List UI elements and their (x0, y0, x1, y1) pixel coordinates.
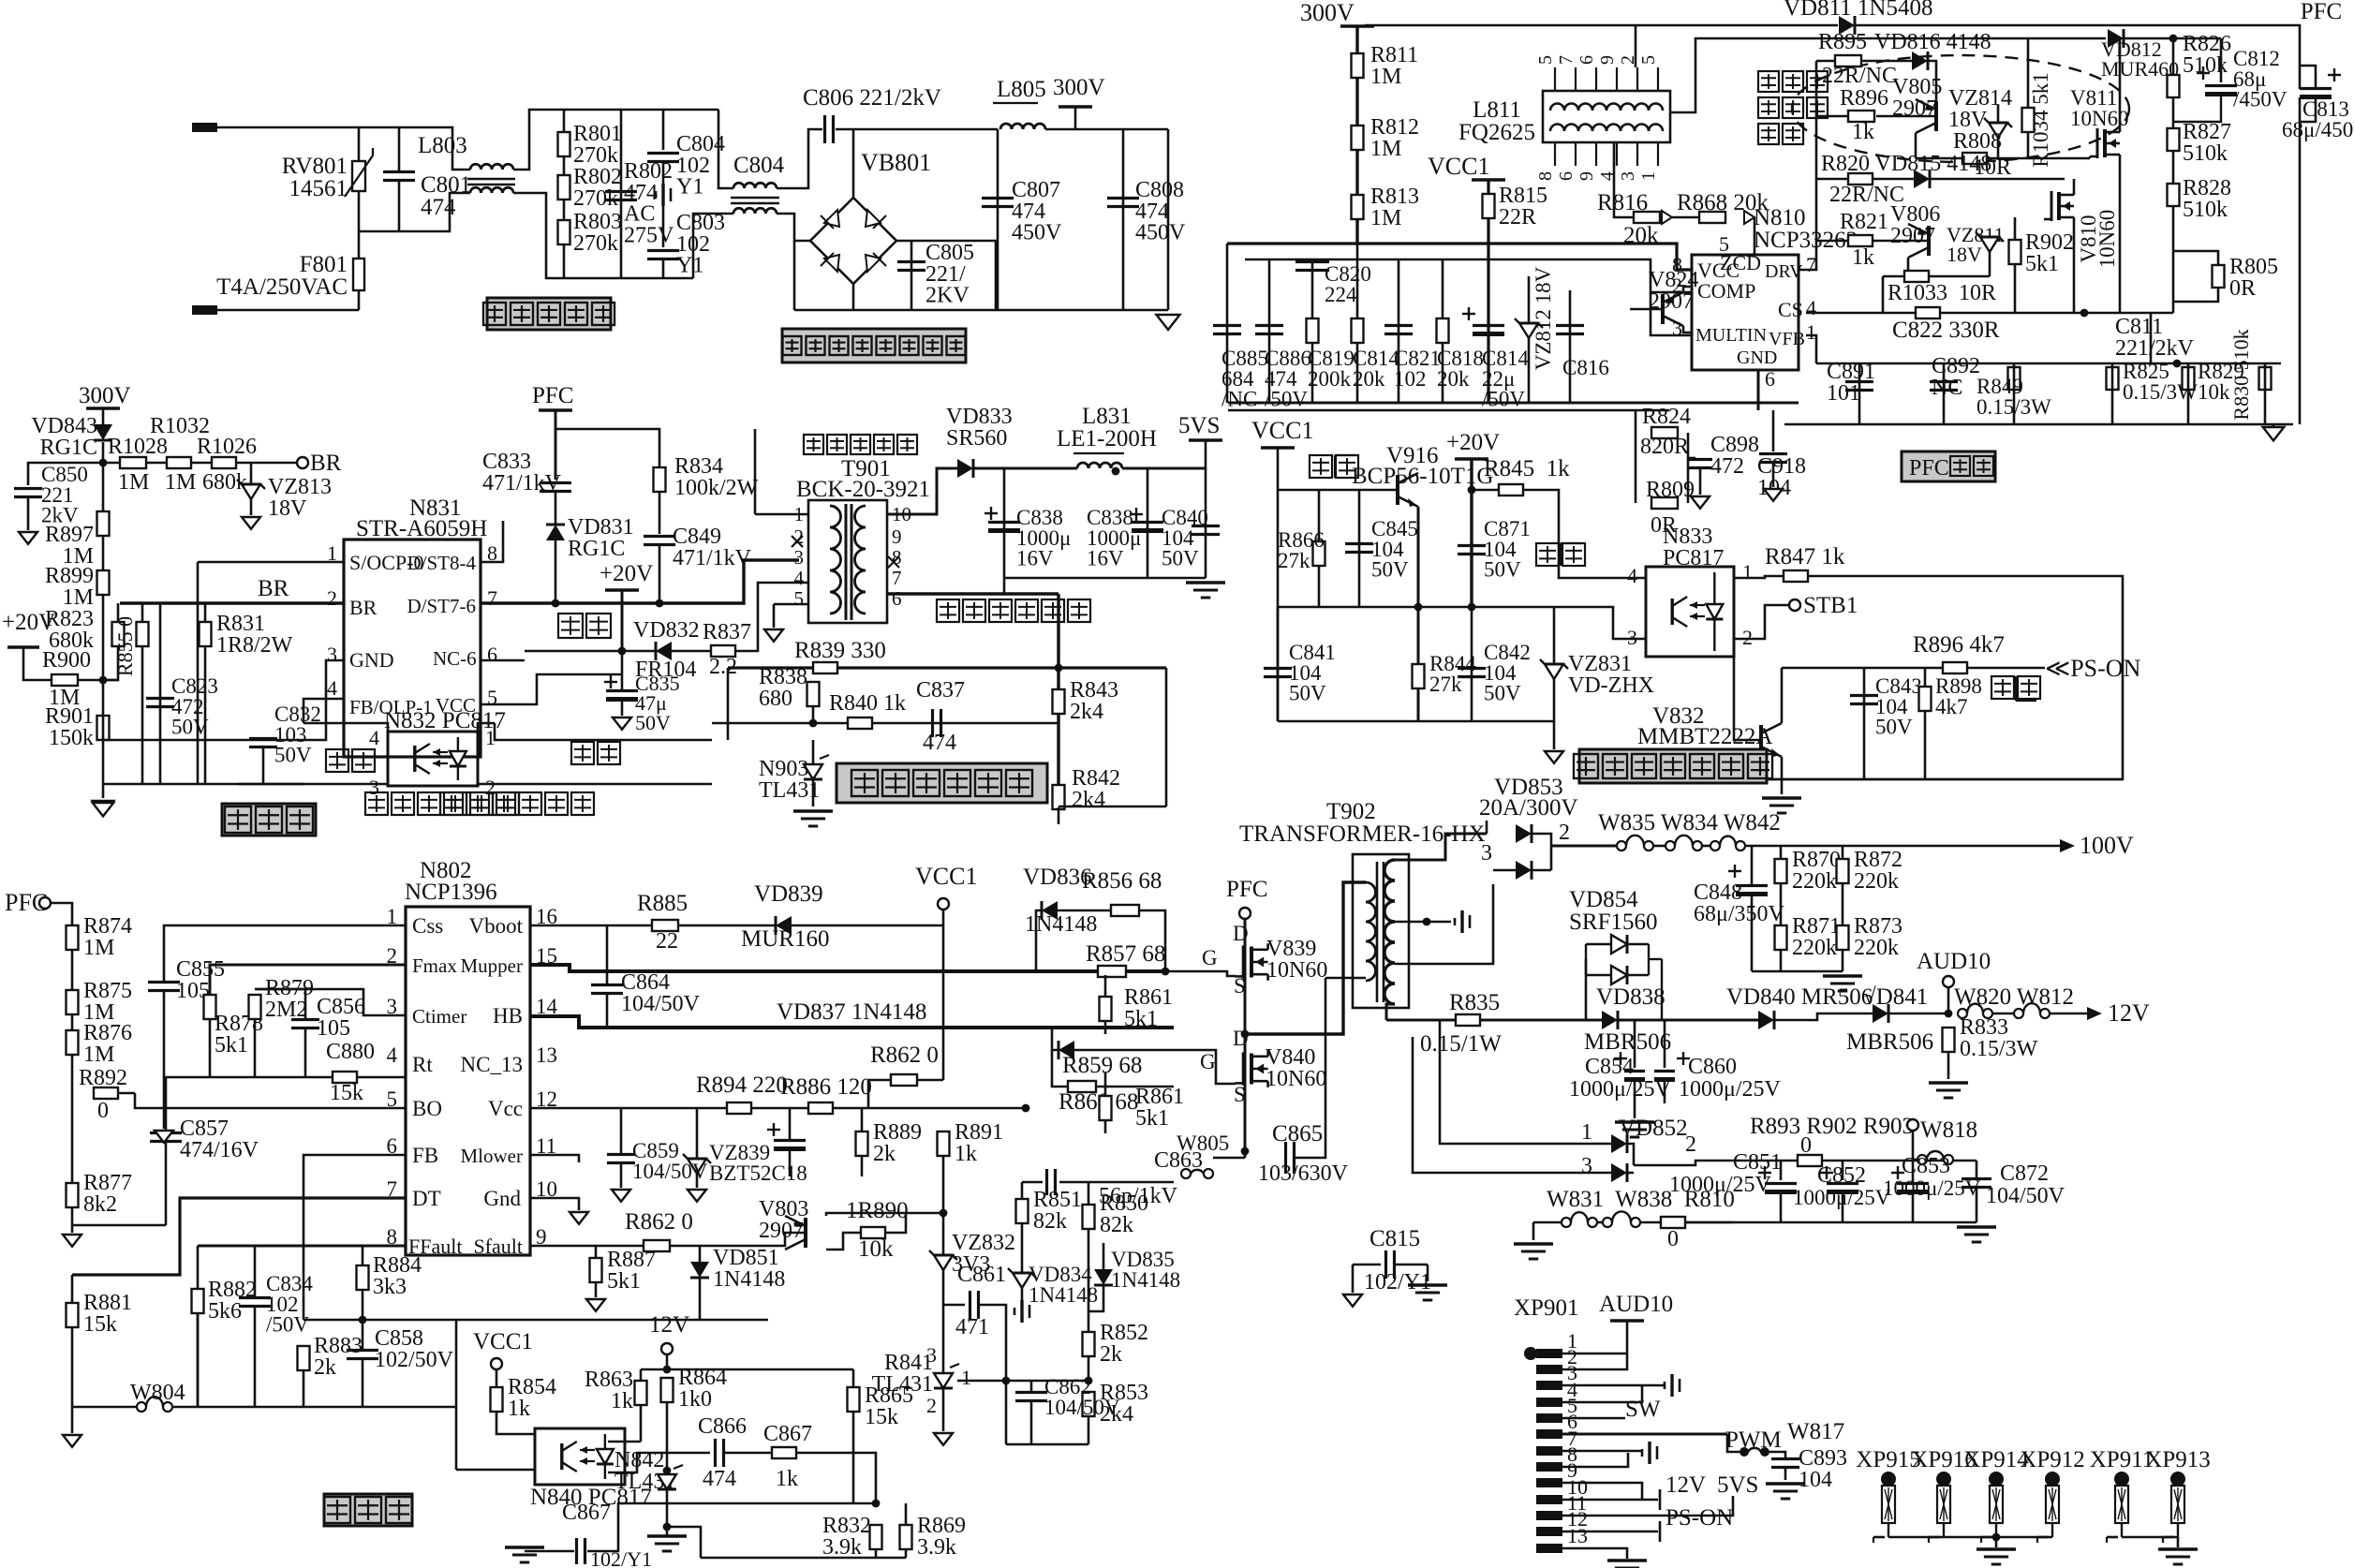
label R889 (873, 1120, 922, 1166)
label R901 (45, 704, 94, 750)
label XP911 (2090, 1447, 2154, 1472)
wire row2b (1873, 178, 1914, 181)
zener VZ814 (1984, 118, 2012, 138)
wire C801 to choke (399, 193, 470, 231)
wire R840 row2 (813, 722, 1059, 725)
svg-text:2: 2 (926, 1394, 937, 1417)
wire R831 col (204, 603, 207, 784)
svg-text:R896 4k7: R896 4k7 (1913, 632, 2005, 658)
svg-text:220k: 220k (1792, 869, 1837, 894)
svg-text:/50V: /50V (1265, 388, 1308, 411)
wire C804 gnd (662, 162, 665, 184)
svg-text:MULTIN: MULTIN (1695, 325, 1767, 346)
transistor V811 (2090, 126, 2120, 160)
transistor V806 (1908, 224, 1929, 258)
wire r851 down (1021, 1223, 1024, 1273)
label R1026 value (202, 470, 247, 495)
wire c872 down (1976, 1188, 1978, 1222)
label V840 (1266, 1045, 1326, 1091)
label C862 (1044, 1375, 1120, 1419)
svg-text:C837: C837 (916, 678, 965, 703)
svg-text:4k7: 4k7 (1935, 695, 1968, 718)
IC N810 NCP33262 (1692, 255, 1799, 370)
svg-text:VCC1: VCC1 (1428, 153, 1489, 180)
label XP916 (1911, 1447, 1976, 1472)
resistor R864 (661, 1378, 674, 1402)
svg-text:C854: C854 (1585, 1055, 1634, 1079)
ground C855 (155, 1131, 173, 1143)
svg-text:/450V: /450V (2233, 88, 2287, 111)
svg-text:C880: C880 (326, 1040, 375, 1064)
capacitor C885 (1213, 326, 1241, 334)
label RV801 (282, 154, 348, 201)
wire pin4 fb (304, 699, 344, 723)
resistor R902b (1798, 1155, 1822, 1166)
junction sec mid (1423, 918, 1431, 926)
label C815 value (1364, 1270, 1431, 1294)
svg-text:R855 0: R855 0 (113, 616, 137, 676)
wire sfault row2 (670, 1233, 806, 1246)
wire v832 e (1781, 757, 1784, 779)
capacitor C835 (604, 675, 638, 700)
label R870 (1792, 848, 1841, 894)
svg-text:5: 5 (1719, 232, 1729, 256)
label PS-ON xp (1666, 1505, 1733, 1531)
label VB801 (861, 149, 931, 176)
resistor R879 (249, 995, 261, 1019)
resistor R843 (1053, 689, 1065, 714)
capacitor C863 (1047, 1169, 1056, 1195)
svg-text:6: 6 (1765, 367, 1775, 391)
svg-text:2: 2 (485, 776, 496, 799)
tick PS-ON (1659, 1521, 1662, 1542)
wire c860 col (1664, 1020, 1666, 1068)
svg-text:3: 3 (369, 776, 379, 799)
wire rt out (357, 1068, 406, 1077)
wire c856 link (255, 989, 305, 1019)
svg-text:GND: GND (349, 648, 394, 672)
svg-text:472: 472 (1710, 454, 1744, 479)
svg-text:5k1: 5k1 (215, 1033, 248, 1058)
wire v916 row (1278, 489, 1398, 492)
wire n833 p2 (1734, 605, 1789, 639)
wire c864 col (606, 925, 609, 984)
wire xp12 (1562, 1531, 1658, 1533)
svg-text:1R8/2W: 1R8/2W (216, 633, 293, 658)
capacitor C803 (647, 251, 679, 259)
wire C857 col (165, 1077, 168, 1132)
wire t902 sec mid (1395, 921, 1451, 924)
wire C849 down (659, 545, 661, 603)
labels N833 pins (1627, 560, 1753, 649)
wire xp8 (1562, 1453, 1628, 1467)
resistor R830 (2259, 367, 2272, 390)
svg-text:2k: 2k (873, 1142, 896, 1166)
bracket switch pson (2016, 676, 2036, 701)
capacitor C841 (1264, 669, 1292, 677)
wire +20V d col (1470, 459, 1473, 607)
svg-text:L805: L805 (997, 77, 1046, 102)
svg-text:4: 4 (369, 726, 379, 749)
label W835 (1598, 810, 1781, 836)
label C842 (1484, 641, 1531, 705)
label R830 (2229, 329, 2253, 420)
label L805 (997, 77, 1046, 102)
svg-text:1M: 1M (118, 470, 149, 495)
wire r865 down (852, 1412, 855, 1503)
wire V824 collector (1683, 326, 1692, 333)
capacitor C872 (1962, 1179, 1991, 1188)
svg-text:50V: 50V (1371, 558, 1409, 582)
wire opto p2 (478, 776, 712, 784)
svg-text:R893 R902 R903: R893 R902 R903 (1750, 1114, 1914, 1139)
label PFC main (5, 889, 48, 916)
label C865 (1272, 1121, 1323, 1146)
wire w838 link (1640, 1221, 1661, 1224)
label W804 (130, 1381, 185, 1405)
terminal +20V t901 (605, 588, 639, 592)
svg-text:3: 3 (926, 1343, 937, 1367)
wire R901 down (102, 740, 105, 798)
svg-text:4: 4 (1627, 564, 1637, 587)
label L831 (1082, 404, 1132, 429)
connector XP913 (2163, 1472, 2185, 1543)
capacitor C842 (1458, 669, 1486, 677)
capacitor C838b (1130, 508, 1163, 531)
svg-text:W817: W817 (1787, 1419, 1844, 1444)
wire ref right (1006, 1380, 1088, 1383)
wire r850 top (1088, 1182, 1090, 1205)
capacitor C892 (1930, 382, 1958, 391)
wire v803 c (826, 1233, 861, 1250)
bracket switch mid (1561, 543, 1581, 566)
wire BO (135, 1093, 406, 1108)
resistor R1028 (120, 457, 146, 468)
label V916b (1352, 464, 1493, 489)
svg-text:5k1: 5k1 (2025, 252, 2059, 276)
svg-text:270k: 270k (573, 186, 618, 211)
label AUD10 (1917, 949, 1991, 974)
transistor V810 (2044, 189, 2074, 223)
label C814 (1353, 347, 1399, 391)
wire w834 link (1653, 845, 1666, 848)
terminal BR (297, 457, 308, 468)
label VD832 (633, 618, 700, 643)
wire c867b row (525, 1550, 574, 1553)
svg-text:PS-ON: PS-ON (1666, 1505, 1733, 1531)
label R1033 (1888, 281, 1996, 305)
resistor R808 (1962, 153, 1987, 164)
wire cap bank rail (1228, 402, 1799, 405)
transformer T901 (808, 500, 887, 623)
label C871 (1484, 517, 1531, 582)
svg-text:NC-6: NC-6 (433, 647, 477, 670)
wire col C841 (1277, 607, 1280, 721)
label PFC sb (532, 383, 573, 408)
svg-text:5k1: 5k1 (1124, 1007, 1158, 1031)
wire +20V col (621, 590, 624, 651)
label R827 (2183, 120, 2231, 166)
svg-text:15k: 15k (865, 1405, 898, 1429)
wire row1b (1861, 60, 1912, 63)
transistor V832 (1761, 723, 1782, 757)
label C811 (2115, 315, 2195, 361)
wire t902 prim bot (1325, 977, 1366, 980)
wire V806 base (1873, 240, 1929, 243)
terminal VCC1 pfc (1472, 178, 1505, 182)
junction CS (2080, 309, 2089, 318)
wire fb bus (728, 666, 1166, 669)
wire c815 row (1353, 1264, 1381, 1266)
wire top rail to VD811 (1365, 24, 1838, 27)
wire VZ814 top (1997, 105, 2000, 123)
wire CS (1806, 312, 2173, 315)
svg-text:3: 3 (1627, 626, 1637, 649)
svg-text:224: 224 (1325, 283, 1357, 306)
junction 648 a (1414, 603, 1423, 612)
junction r852 (1085, 1377, 1093, 1385)
wire col C821 (1398, 259, 1400, 403)
svg-text:3k3: 3k3 (373, 1275, 407, 1299)
svg-text:MBR506: MBR506 (1584, 1029, 1671, 1055)
label R868 (1677, 190, 1769, 215)
junction DST rail (656, 599, 664, 608)
resistor R882 (192, 1289, 204, 1313)
label R881 (83, 1291, 132, 1337)
label C863 (1154, 1148, 1203, 1173)
svg-text:1M: 1M (83, 936, 114, 960)
svg-text:R821: R821 (1840, 210, 1888, 234)
resistor R885 (652, 920, 678, 931)
svg-text:2k: 2k (1100, 1342, 1122, 1367)
svg-text:G: G (1202, 946, 1218, 969)
resistor R876 (67, 1030, 79, 1055)
wire 300V stub (1074, 107, 1077, 129)
label VD836 (1023, 865, 1092, 890)
wire pin4 rt (164, 1076, 333, 1079)
wire R842 down (1058, 807, 1060, 824)
label C867b (562, 1501, 611, 1525)
svg-text:6: 6 (892, 587, 902, 610)
wire c858 down (362, 1359, 364, 1407)
wire PFC drop (555, 410, 557, 480)
resistor C880 (333, 1072, 357, 1083)
wire C838a col (1003, 468, 1006, 578)
wire C898 wire (1688, 457, 1695, 460)
label R813 (1370, 185, 1419, 230)
svg-text:Y1: Y1 (676, 175, 703, 200)
svg-text:D/ST8-4: D/ST8-4 (407, 552, 477, 574)
wire pfc top link (555, 429, 659, 467)
wire R855 (141, 603, 144, 622)
label R837 (703, 620, 751, 644)
label R816 (1597, 190, 1648, 215)
svg-text:474: 474 (421, 195, 456, 220)
svg-text:9: 9 (1577, 171, 1597, 181)
svg-text:NC_13: NC_13 (461, 1053, 523, 1076)
wire C850 wire (28, 463, 103, 485)
svg-text:1N4148: 1N4148 (713, 1267, 785, 1292)
wire vcc row (530, 1107, 1026, 1110)
svg-text:15k: 15k (330, 1081, 363, 1105)
wire sec rail (887, 592, 1059, 595)
resistor R1033 (1904, 271, 1929, 282)
wire choke2 to C806 (777, 129, 822, 188)
wire 12v row (667, 1368, 853, 1371)
svg-text:3.9k: 3.9k (822, 1535, 862, 1560)
label N833 (1663, 525, 1724, 570)
wire 5VS col (1205, 440, 1207, 578)
label W820 (1954, 984, 2074, 1010)
label 12V out (2108, 999, 2150, 1027)
wire r863 link (641, 1368, 667, 1371)
wire col R830 (2264, 363, 2267, 424)
label C820 (1325, 262, 1371, 306)
svg-text:R1034 5k1: R1034 5k1 (2029, 72, 2052, 168)
wire r881 down (71, 1327, 74, 1407)
wire C812 down (2173, 95, 2221, 122)
wire R1033 drop (1882, 276, 1885, 313)
label C866 (698, 1414, 747, 1439)
label C845 (1371, 517, 1418, 582)
wire t902 sec bot (1386, 1004, 1395, 1020)
junction 300Vsb (99, 459, 108, 467)
label R865 (865, 1383, 913, 1429)
terminal 300V pfc (1340, 24, 1374, 28)
svg-text:1000μ/25V: 1000μ/25V (1679, 1077, 1782, 1102)
label 300V rect (1053, 75, 1105, 100)
wire V810 drain (2073, 179, 2076, 189)
label XP915 (1856, 1447, 1920, 1472)
label 12V xp (1666, 1472, 1706, 1498)
wire R902 top (2014, 217, 2017, 240)
svg-text:Gnd: Gnd (483, 1187, 521, 1210)
svg-text:R1026: R1026 (197, 435, 257, 459)
label VZ812 (1532, 266, 1555, 370)
label C864 (621, 970, 701, 1016)
diode VD839 (776, 916, 792, 935)
label R845 (1484, 456, 1570, 481)
ground R901 (93, 801, 114, 814)
svg-text:XP913: XP913 (2145, 1447, 2210, 1472)
svg-text:5k6: 5k6 (208, 1299, 242, 1324)
label R837 value (709, 655, 737, 679)
wire sb gnd col (102, 691, 105, 740)
svg-text:22R: 22R (1499, 205, 1536, 229)
label R896b (1913, 632, 2005, 658)
svg-text:C860: C860 (1688, 1055, 1737, 1079)
diode VD851 (690, 1262, 709, 1278)
wire r841 ref (957, 1380, 1006, 1383)
label V811 (2070, 86, 2129, 130)
label N831 (409, 496, 462, 521)
label VD841 (1863, 984, 1928, 1010)
label 1R890 (846, 1198, 909, 1223)
capacitor C813 (2300, 68, 2341, 97)
svg-text:0R: 0R (2229, 276, 2256, 301)
wire L803 out top (513, 110, 718, 170)
resistor R812 (1352, 126, 1364, 150)
svg-text:C865: C865 (1272, 1121, 1323, 1146)
ground 100v (1823, 976, 1862, 991)
wire C823 col (159, 603, 162, 784)
svg-text:1N4148: 1N4148 (1111, 1268, 1180, 1292)
svg-text:104: 104 (1799, 1468, 1832, 1492)
svg-text:Vcc: Vcc (488, 1097, 523, 1120)
label C867b value (590, 1547, 652, 1568)
svg-text:R862 0: R862 0 (870, 1043, 939, 1068)
svg-text:VD837 1N4148: VD837 1N4148 (777, 999, 926, 1025)
label N842 (614, 1448, 675, 1494)
capacitor C843 (1850, 696, 1878, 704)
resistor R896 (1848, 111, 1874, 122)
capacitor C801 (383, 172, 415, 181)
section label sampling (836, 763, 1047, 803)
label VZ831 (1568, 652, 1654, 698)
wire node 648 (1278, 606, 1559, 609)
label VD837 (777, 999, 926, 1025)
svg-text:18V: 18V (1948, 108, 1988, 132)
diode pair VD854 (1586, 935, 1662, 1020)
resistor R874 (67, 925, 79, 950)
label N802 (420, 858, 472, 883)
ground R833 (1929, 1083, 1968, 1098)
label 300V sb (79, 383, 131, 408)
wire v840 s (1244, 1085, 1247, 1158)
ground pfc rail (2263, 427, 2285, 440)
label XP913 (2145, 1447, 2210, 1472)
label C854 (1585, 1055, 1634, 1079)
svg-text:50V: 50V (171, 716, 209, 739)
resistor R829 (2183, 367, 2195, 390)
resistor R826 (2168, 75, 2180, 97)
svg-text:RG1C: RG1C (40, 436, 97, 460)
wire pin1 css (164, 925, 406, 982)
tick pin1 vd853 (1486, 821, 1488, 834)
label N802b (405, 880, 497, 905)
wire pfc main (51, 903, 72, 1077)
wire col C892 (1943, 363, 1946, 424)
wire L805 out (1045, 128, 1168, 131)
wire bottom 1542 (1006, 1443, 1088, 1446)
svg-text:C853: C853 (1902, 1154, 1950, 1178)
svg-text:4: 4 (794, 567, 805, 589)
wire v803 e (826, 1213, 906, 1216)
label C860 (1688, 1055, 1737, 1079)
label R838 (759, 665, 807, 711)
wire chain4 (236, 462, 297, 465)
wire R805 loop (2173, 251, 2218, 265)
wire c856 down (304, 1028, 307, 1077)
label C833 (482, 450, 562, 496)
svg-text:100V: 100V (2080, 832, 2134, 859)
wire col R829 (2187, 363, 2190, 424)
resistor R881 (67, 1303, 79, 1327)
svg-text:L803: L803 (418, 133, 467, 158)
wire xp4 (1562, 1385, 1642, 1402)
wire rail 1305 (1673, 1221, 1976, 1224)
capacitor C854 (1614, 1052, 1645, 1080)
wire r879 down (254, 1019, 257, 1077)
terminal AUD10 (1943, 976, 1954, 987)
ground N802 (570, 1212, 588, 1224)
svg-text:C822 330R: C822 330R (1892, 318, 2000, 343)
wire chain3 (191, 462, 212, 465)
wire col VZ812 (1528, 276, 1531, 403)
ground N842 (647, 1536, 687, 1551)
label C885 (1221, 347, 1268, 411)
label R835 (1449, 990, 1500, 1015)
